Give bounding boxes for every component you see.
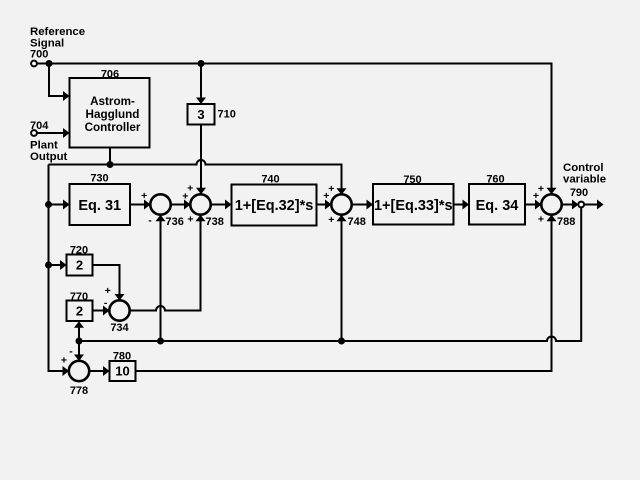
wire feedback up to summer 736 bottom xyxy=(160,221,162,341)
summer 778 xyxy=(69,361,89,381)
arrowhead into summer 788 top xyxy=(547,188,557,195)
arrowhead into summer 778 left xyxy=(63,366,70,376)
arrowhead into controller input 2 xyxy=(63,128,70,138)
wire feedback down to summer 778 top xyxy=(78,341,80,355)
summer 734 xyxy=(109,300,129,320)
arrowhead into summer 738 top xyxy=(196,188,206,195)
wire top branch to gain 710 xyxy=(200,64,202,99)
block 706 Astrom-Hagglund Controller xyxy=(70,78,150,148)
wire plant output to controller input 2 xyxy=(37,132,63,134)
arrowhead into summer 788 left xyxy=(535,200,542,210)
svg-text:Controller: Controller xyxy=(85,121,141,134)
svg-text:+: + xyxy=(182,190,188,202)
summer 738 xyxy=(190,194,210,214)
svg-text:Plant: Plant xyxy=(30,140,58,152)
wire block 750 to block 760 xyxy=(454,204,464,206)
wire summer 778 to gain 780 xyxy=(89,370,104,372)
wire summer 734 output with hop to summer 738 bottom xyxy=(130,221,201,311)
svg-text:+: + xyxy=(141,190,147,202)
svg-text:-: - xyxy=(69,346,73,358)
arrowhead into block 750 xyxy=(367,200,374,210)
svg-text:730: 730 xyxy=(90,173,108,185)
terminal 790 xyxy=(578,202,584,208)
wire gain 770 to summer 734 left xyxy=(93,310,104,312)
summer 788 xyxy=(541,194,561,214)
svg-text:738: 738 xyxy=(206,216,224,228)
svg-text:734: 734 xyxy=(110,322,129,334)
block 770 gain 2 xyxy=(67,301,93,322)
wire gain 710 to summer 738 top xyxy=(200,125,202,189)
svg-text:Control: Control xyxy=(563,162,604,174)
svg-text:+: + xyxy=(538,214,544,226)
svg-text:Output: Output xyxy=(30,151,68,163)
wire main feedback line from terminal 790 xyxy=(79,207,581,341)
svg-text:736: 736 xyxy=(166,216,184,228)
arrowhead into gain 770 bottom xyxy=(74,321,84,328)
arrowhead into summer 736 bottom xyxy=(156,215,166,222)
block 730 Eq. 31 xyxy=(70,184,131,225)
wire output stub xyxy=(584,204,597,206)
svg-text:-: - xyxy=(104,297,108,309)
summer 748 xyxy=(331,194,351,214)
label 704 Plant Output xyxy=(30,120,68,163)
wire block 740 to summer 748 xyxy=(317,204,326,206)
arrowhead into summer 738 left xyxy=(184,200,191,210)
node feedback at x160 xyxy=(157,338,164,345)
arrowhead into summer 788 bottom xyxy=(547,215,557,222)
wire reference to controller input 1 xyxy=(49,64,64,97)
wire summer 736 to summer 738 xyxy=(171,204,185,206)
arrowhead into summer 748 bottom xyxy=(337,215,347,222)
svg-text:-: - xyxy=(148,214,152,226)
wire to Eq31 input xyxy=(49,204,64,206)
wire gain 780 to summer 788 bottom xyxy=(136,221,552,371)
wire gain 720 to summer 734 top xyxy=(93,265,120,295)
svg-text:788: 788 xyxy=(557,216,575,228)
svg-text:Eq. 31: Eq. 31 xyxy=(78,198,121,214)
svg-text:10: 10 xyxy=(115,364,129,379)
label Control variable 790 xyxy=(563,162,606,199)
block 750 1+[Eq.33]*s xyxy=(373,184,454,225)
label Reference Signal 700 xyxy=(30,26,85,61)
svg-text:+: + xyxy=(328,214,334,226)
wire Eq31 to summer 736 xyxy=(130,204,145,206)
svg-text:+: + xyxy=(323,190,329,202)
arrowhead into block 760 xyxy=(463,200,470,210)
arrowhead into summer 734 left xyxy=(103,306,110,316)
terminal 704 xyxy=(31,130,37,136)
arrowhead into summer 748 left xyxy=(325,200,332,210)
svg-text:Astrom-: Astrom- xyxy=(90,95,135,108)
wire feedback up to summer 748 bottom xyxy=(341,221,343,341)
svg-text:2: 2 xyxy=(76,258,83,273)
block 740 1+[Eq.32]*s xyxy=(232,185,317,226)
arrowhead output end xyxy=(597,200,604,210)
svg-text:778: 778 xyxy=(70,385,88,397)
node on top line at x49 xyxy=(46,60,53,67)
wire summer 748 to block 750 xyxy=(352,204,368,206)
arrowhead into Eq31 xyxy=(63,200,70,210)
svg-text:+: + xyxy=(61,355,67,367)
arrowhead into gain 720 xyxy=(60,260,67,270)
node feedback at x79 xyxy=(76,338,83,345)
wire controller output to junction xyxy=(109,148,111,165)
arrowhead into gain 780 xyxy=(103,366,110,376)
svg-text:+: + xyxy=(187,214,193,226)
arrowhead into gain 710 top xyxy=(196,98,206,105)
terminal 700 xyxy=(31,61,37,67)
arrowhead at terminal 790 xyxy=(572,200,579,210)
node on top line at x201 xyxy=(198,60,205,67)
node feedback at x341 xyxy=(338,338,345,345)
arrowhead into summer 738 bottom xyxy=(196,215,206,222)
node Eq31 input junction xyxy=(45,201,52,208)
wire feedback up to gain 770 bottom xyxy=(78,327,80,341)
svg-text:+: + xyxy=(105,285,111,297)
node branch junction for 720 xyxy=(45,262,52,269)
svg-text:1+[Eq.33]*s: 1+[Eq.33]*s xyxy=(374,198,453,214)
wire left vertical bus down to 778 xyxy=(49,165,63,372)
svg-text:710: 710 xyxy=(218,109,236,121)
arrowhead into block 740 xyxy=(225,200,232,210)
wire controller output line with hop to 748 top xyxy=(49,160,342,189)
block 720 gain 2 xyxy=(67,255,93,276)
arrowhead into summer 736 left xyxy=(144,200,151,210)
summer 736 xyxy=(150,194,170,214)
svg-text:790: 790 xyxy=(570,187,588,199)
svg-text:3: 3 xyxy=(197,107,204,122)
svg-text:1+[Eq.32]*s: 1+[Eq.32]*s xyxy=(235,198,314,214)
svg-text:700: 700 xyxy=(30,49,48,61)
arrowhead into summer 778 top xyxy=(74,355,84,362)
wire block 760 to summer 788 xyxy=(525,204,536,206)
node controller output junction xyxy=(107,161,114,168)
wire reference top line to 788 top xyxy=(37,64,551,189)
arrowhead into controller input 1 xyxy=(63,91,70,101)
block 710 gain 3 xyxy=(188,104,215,125)
svg-text:+: + xyxy=(533,190,539,202)
arrowhead into summer 748 top xyxy=(337,188,347,195)
arrowhead into summer 734 top xyxy=(115,294,125,301)
svg-text:748: 748 xyxy=(348,216,366,228)
svg-text:Eq. 34: Eq. 34 xyxy=(476,198,519,214)
svg-text:Hagglund: Hagglund xyxy=(86,108,140,121)
svg-text:Reference: Reference xyxy=(30,26,85,38)
block 760 Eq. 34 xyxy=(469,184,525,225)
svg-text:variable: variable xyxy=(563,174,606,186)
svg-text:2: 2 xyxy=(76,304,83,319)
wire summer 788 to output terminal 790 xyxy=(562,204,573,206)
block 780 gain 10 xyxy=(110,361,136,381)
wire summer 738 to block 740 xyxy=(211,204,226,206)
wire to gain 720 xyxy=(49,264,61,266)
